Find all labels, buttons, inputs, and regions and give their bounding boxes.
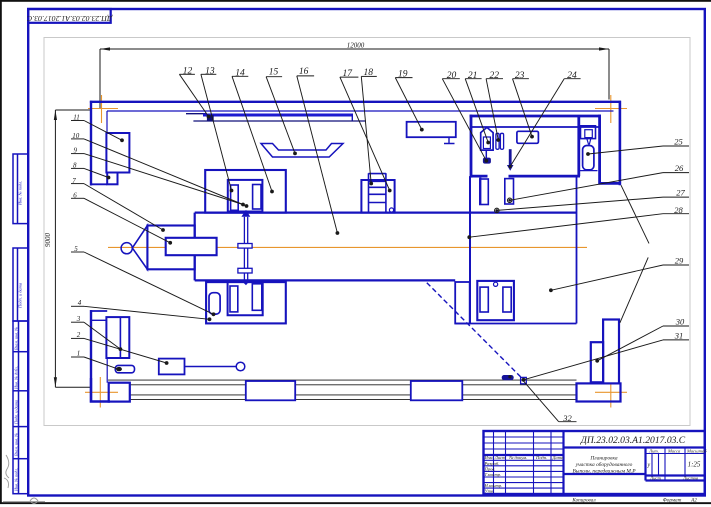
title block name text [573,456,637,475]
building right wall upper [619,101,622,186]
main assembly band [195,213,577,281]
junction bracket left below room [480,179,489,205]
lower block inner slot left [230,286,238,312]
monorail trolley filled square (item 12 target) [207,115,214,121]
equipment 1 capsule [115,365,134,372]
equipment 19 bench [407,122,456,137]
svg-text:Копировал: Копировал [571,498,596,504]
svg-text:20: 20 [447,71,457,81]
top-right room outline [470,115,621,185]
svg-text:участка оборудованного: участка оборудованного [575,461,633,468]
leader 16 [297,76,338,233]
svg-text:Инв. № подл.: Инв. № подл. [14,468,19,492]
axis cross top-left [88,95,118,123]
page edge top [0,0,711,2]
svg-text:1: 1 [77,349,81,357]
svg-text:Пров.: Пров. [484,466,496,471]
svg-text:Листов: Листов [682,475,698,480]
machine 5-7 cone [132,226,147,270]
room item 21 welding post pentagon [481,127,493,150]
svg-text:1:25: 1:25 [688,461,701,469]
item 22 twin bars [496,133,504,149]
svg-text:14: 14 [235,69,245,79]
leader 6 [84,198,170,243]
svg-text:Утв.: Утв. [485,489,495,494]
title block grid [484,431,705,494]
svg-text:23: 23 [515,71,525,81]
callout target dots [107,115,599,382]
main horizontal axis centerline [108,246,587,248]
item 24 neck [587,139,591,145]
leader 29 [551,265,663,290]
svg-text:24: 24 [567,71,577,81]
top-left designation stamp box [28,9,111,23]
junction roller circle lower [495,208,499,212]
leader 19 [395,78,422,130]
bay shelf line under cylinder [579,170,598,172]
left margin table lower texts [14,327,19,492]
left margin table middle [13,248,28,321]
monorail beam thick [203,114,352,117]
bottom-left block equipment 3 [106,317,129,358]
leader 25 [588,146,663,154]
svg-text:13: 13 [205,67,215,77]
left margin table upper [13,154,28,224]
svg-text:у: у [646,463,650,469]
svg-text:ДП.23.02.03.А1.2017.03.С: ДП.23.02.03.А1.2017.03.С [580,435,686,446]
leader 27 [497,197,663,210]
svg-text:Планировка: Планировка [589,456,617,462]
upper block inner table rect [228,180,263,212]
building left wall upper segment [90,101,92,186]
central vertical shaft double line [244,217,247,280]
right gate leaf lower [620,257,648,322]
page edge bottom [0,502,711,504]
leader 18 [361,76,371,183]
view boundary gray rect [44,38,690,426]
item 32 capsule filled [502,375,514,380]
equipment 2 cable line [185,366,237,368]
machine 29-area press [477,281,514,320]
item 20 floor blob [483,158,491,164]
equipment 4 cylinder capsule [209,293,220,314]
leader 11 [84,121,122,141]
junction bracket left thick edge [479,178,481,205]
leader 7 [84,184,163,230]
machine 5-7 body [147,226,194,270]
equipment 2 trolley circle [236,362,245,371]
bottom-right corner column block [577,383,621,401]
svg-text:15: 15 [269,68,279,78]
svg-text:Масса: Масса [667,448,681,453]
dimension top line [100,47,609,109]
equipment 8 box below rack [107,173,117,185]
axis cross top-right [595,95,627,123]
axis cross bottom-left [85,377,118,408]
item 24 gas cylinder capsule [583,146,594,170]
leader 28 [469,214,663,238]
leader 13 [201,74,232,190]
svg-text:Дата: Дата [552,455,565,460]
bottom-left corner wall L [91,378,110,402]
callout number labels [72,67,685,423]
svg-text:Лист: Лист [649,475,661,480]
svg-text:Подп. и дата: Подп. и дата [18,282,23,309]
callout leader lines [84,74,663,421]
upper central block [205,170,286,213]
leader 32 [523,381,559,422]
machine workpiece rect [166,238,217,255]
item 21 inner rect [483,137,490,149]
svg-text:27: 27 [676,188,685,198]
lower block inner U outline [228,283,263,315]
vertical partition line x=470 [469,176,471,323]
lower central block [206,282,286,323]
right wall stepped block upper [603,320,619,384]
svg-text:22: 22 [490,71,500,81]
bottom gate right [411,381,463,400]
svg-text:Инв. № подл.: Инв. № подл. [18,181,23,206]
svg-text:Н.контр.: Н.контр. [484,483,503,488]
leader 17 [340,77,390,190]
svg-text:25: 25 [674,136,683,146]
press top small circle [494,282,498,286]
shaft bottom arrowhead [241,280,251,285]
title block header tiny labels [484,448,708,493]
svg-text:№ докум.: № докум. [508,455,527,460]
dimension left line [54,110,91,387]
equipment 19 bench leg [444,137,455,143]
rack small wheel circle [389,208,393,212]
crane range dashed line [427,283,523,380]
equipment 2 machine box [159,359,185,375]
item 24 stand inner rect [585,130,593,138]
leader 21 [465,79,488,143]
leader 14 [232,76,272,191]
leader 20 [442,79,486,161]
leader 23 [513,79,533,137]
equipment 10 rack on left wall [106,133,129,173]
svg-text:Подп. и дата: Подп. и дата [14,400,19,425]
leader 10 [84,139,247,206]
machine 5-7 circle [121,243,132,254]
bottom-left corner column block [109,383,130,402]
svg-text:29: 29 [675,256,684,266]
leader 26 [510,173,663,201]
junction bracket right below room [505,179,514,204]
shaft top arrowhead [241,210,250,217]
svg-text:19: 19 [398,70,408,80]
building left wall inner segments [91,111,107,383]
leader 2 [84,338,167,363]
svg-text:Т.контр.: Т.контр. [485,472,502,477]
equipment 3 wall connector [91,319,106,321]
svg-text:ДП.23.02.03.А1.2017.03.С: ДП.23.02.03.А1.2017.03.С [26,14,113,23]
room door flow arrow [509,149,512,165]
monorail thin rail line below [193,120,366,122]
leader 4 [84,306,210,319]
svg-text:Разраб.: Разраб. [484,461,500,466]
svg-text:Выполн. передвижным М.Р: Выполн. передвижным М.Р [573,468,637,475]
equipment 17-18 rack ladder [361,180,394,213]
item 24 stand rect in bay [581,126,596,139]
building top wall [90,101,621,103]
gray signature squiggle bottom-left [4,455,9,488]
leader 12 [179,74,208,116]
bottom gate left [246,381,295,400]
svg-text:Масштаб: Масштаб [686,448,707,453]
svg-text:30: 30 [675,317,685,327]
axis cross bottom-right [595,377,627,408]
right gate leaf upper [621,185,649,243]
bottom rail lines [108,380,577,400]
leader 30 [597,326,663,361]
equipment 15 trough [261,144,343,158]
monorail beam right end cap [351,114,353,122]
svg-text:12: 12 [183,67,193,77]
item 21 stem [485,150,487,158]
leader 22 [486,79,498,140]
svg-text:Изм. Лист: Изм. Лист [484,455,507,460]
leader 3 [84,322,120,349]
svg-text:21: 21 [468,71,478,81]
item 31 small square [521,377,527,383]
right wall stepped block lower [591,342,603,382]
lower-right storage room [455,176,576,323]
monorail beam thin left stub [186,113,206,115]
leader 31 [524,340,664,380]
leader 9 [84,154,243,205]
press inner slot left [480,287,488,312]
upper block inner slot left [231,185,239,210]
svg-text:Формат: Формат [663,498,682,504]
svg-text:12000: 12000 [347,41,365,49]
item 23 bench rect [517,131,539,143]
svg-text:9000: 9000 [44,233,52,248]
svg-text:Взам. инв. №: Взам. инв. № [14,433,19,456]
page edge left [0,0,2,503]
svg-text:31: 31 [674,331,684,341]
svg-text:26: 26 [675,163,684,173]
lower block inner slot right [252,284,261,311]
leader 24 [510,79,564,167]
svg-text:Подп.: Подп. [535,455,547,460]
leader 5 [84,252,214,314]
leader 8 [84,168,109,177]
svg-text:Инв. № дубл.: Инв. № дубл. [14,366,19,390]
leader 1 [84,357,118,369]
left margin table lower [13,321,28,494]
building top wall inner line [107,110,614,112]
building left wall lower segment [90,310,92,403]
shaft muff lower [238,268,252,273]
equipment 3 divider [119,317,121,358]
svg-text:А2: А2 [690,498,697,504]
upper block inner slot right [253,185,261,210]
svg-text:Взам. инв. №: Взам. инв. № [14,327,19,350]
svg-text:Лит.: Лит. [648,448,659,453]
junction roller circle upper [508,198,512,202]
leader 15 [266,77,295,154]
shaft muff upper [238,244,252,249]
press inner slot right [503,287,511,312]
callout underlines [71,74,689,421]
